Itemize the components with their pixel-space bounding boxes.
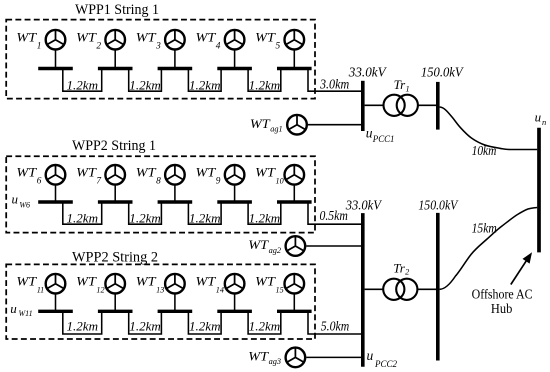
label 1.2km (3,4) bbox=[249, 319, 281, 333]
cable 1.2km WT4-WT5 bbox=[248, 69, 281, 92]
label WT4 bbox=[196, 30, 221, 51]
transformer Tr1 bbox=[384, 95, 418, 116]
svg-text:WT: WT bbox=[255, 166, 276, 180]
dashed boundary WPP string box 1 bbox=[6, 20, 315, 99]
svg-text:u: u bbox=[10, 301, 17, 316]
svg-text:1.2km: 1.2km bbox=[129, 211, 161, 225]
label WT11 bbox=[16, 274, 44, 294]
svg-text:33.0kV: 33.0kV bbox=[345, 197, 383, 212]
cable 1.2km WT13-WT14 bbox=[188, 311, 221, 334]
node label uW6 bbox=[12, 192, 31, 210]
label 33.0kV (top) bbox=[348, 65, 387, 80]
svg-text:Tr: Tr bbox=[393, 261, 406, 276]
bus bar WT3 bbox=[158, 67, 193, 70]
svg-text:1.2km: 1.2km bbox=[129, 319, 161, 333]
label 150.0kV (top) bbox=[421, 65, 464, 80]
svg-text:WT: WT bbox=[16, 166, 37, 180]
wire stem WT10 bbox=[293, 184, 295, 202]
label 1.2km (1,1) bbox=[67, 78, 99, 92]
arrow to offshore hub bbox=[511, 252, 532, 284]
wire WTag1 to bus bbox=[308, 124, 363, 126]
svg-text:1.2km: 1.2km bbox=[67, 319, 99, 333]
svg-text:1.2km: 1.2km bbox=[189, 211, 221, 225]
svg-text:WT: WT bbox=[248, 350, 269, 364]
svg-text:WPP2 String 2: WPP2 String 2 bbox=[72, 249, 158, 265]
svg-text:W6: W6 bbox=[19, 201, 30, 210]
svg-text:15: 15 bbox=[276, 285, 284, 294]
label WPP1 String 1 bbox=[75, 2, 159, 18]
wind turbine WT9 bbox=[225, 165, 245, 185]
label WT3 bbox=[136, 30, 161, 51]
sea cable 15km bbox=[440, 208, 538, 290]
wind turbine WT8 bbox=[165, 165, 185, 185]
svg-text:1: 1 bbox=[37, 41, 42, 51]
cable 1.2km WT12-WT13 bbox=[129, 311, 162, 334]
bus bar WT14 bbox=[217, 310, 252, 313]
svg-text:12: 12 bbox=[96, 285, 104, 294]
label WT13 bbox=[136, 274, 164, 294]
label 0.5km bbox=[320, 208, 348, 223]
wire stem WT13 bbox=[174, 293, 176, 311]
label WT14 bbox=[196, 274, 224, 294]
node label uPCC1 bbox=[366, 125, 395, 143]
label WT10 bbox=[255, 166, 283, 186]
bus bar WT15 bbox=[277, 310, 312, 313]
wire stem WT15 bbox=[293, 293, 295, 311]
label WT15 bbox=[255, 274, 283, 294]
svg-text:10: 10 bbox=[276, 176, 284, 185]
wire stem WT11 bbox=[55, 293, 57, 311]
svg-text:1: 1 bbox=[406, 85, 410, 94]
svg-text:WT: WT bbox=[248, 238, 269, 252]
bus bar WT9 bbox=[217, 200, 252, 203]
cable 1.2km WT14-WT15 bbox=[248, 311, 281, 334]
label WT9 bbox=[196, 166, 221, 187]
wire Tr2 to bus150kV2 bbox=[417, 288, 437, 290]
label WT5 bbox=[255, 30, 280, 51]
cable 1.2km WT2-WT3 bbox=[129, 69, 162, 92]
feeder cable 5.0km bbox=[308, 311, 363, 334]
label 1.2km (1,4) bbox=[249, 78, 281, 92]
svg-text:10km: 10km bbox=[472, 143, 497, 158]
bus 33.0kV PCC1 bbox=[361, 81, 365, 131]
wire WTag2 to bus bbox=[306, 245, 363, 247]
svg-text:1.2km: 1.2km bbox=[189, 78, 221, 92]
transformer Tr2 bbox=[383, 279, 417, 300]
svg-text:5: 5 bbox=[276, 41, 281, 51]
svg-text:WT: WT bbox=[136, 274, 157, 288]
svg-text:WT: WT bbox=[76, 166, 97, 180]
svg-text:WT: WT bbox=[196, 274, 217, 288]
bus 150.0kV lower bbox=[436, 213, 440, 361]
svg-text:ag3: ag3 bbox=[269, 357, 281, 366]
svg-text:2: 2 bbox=[405, 267, 409, 276]
wind turbine WT6 bbox=[46, 165, 66, 185]
svg-text:WT: WT bbox=[250, 117, 271, 131]
wire bus33kV to Tr1 bbox=[365, 104, 384, 106]
bus 33.0kV PCC2 bbox=[361, 213, 365, 367]
label 1.2km (3,2) bbox=[129, 319, 161, 333]
label Tr1 bbox=[394, 77, 410, 94]
wire stem WT14 bbox=[234, 293, 236, 311]
label Offshore AC Hub bbox=[472, 287, 533, 317]
cable 1.2km WT11-WT12 bbox=[63, 311, 102, 334]
svg-text:7: 7 bbox=[96, 176, 101, 186]
svg-text:11: 11 bbox=[37, 285, 45, 294]
bus 150.0kV upper bbox=[436, 82, 440, 130]
wind turbine WT13 bbox=[165, 274, 185, 294]
svg-text:PCC1: PCC1 bbox=[372, 134, 395, 144]
wind turbine WT5 bbox=[285, 30, 305, 50]
svg-text:WT: WT bbox=[136, 30, 157, 44]
wire stem WT12 bbox=[114, 293, 116, 311]
wire WTag3 to bus bbox=[306, 356, 363, 358]
sea cable 10km bbox=[440, 107, 538, 150]
label 1.2km (2,1) bbox=[67, 211, 99, 225]
wind turbine WTag3 bbox=[286, 348, 306, 368]
svg-text:WT: WT bbox=[16, 274, 37, 288]
wind turbine WT2 bbox=[105, 30, 125, 50]
label 1.2km (2,4) bbox=[249, 211, 281, 225]
svg-text:6: 6 bbox=[37, 176, 42, 186]
cable 1.2km WT8-WT9 bbox=[188, 202, 221, 224]
label 1.2km (3,1) bbox=[67, 319, 99, 333]
wire stem WT2 bbox=[114, 49, 116, 68]
wire stem WT6 bbox=[55, 184, 57, 202]
feeder cable 0.5km bbox=[308, 202, 363, 224]
label 1.2km (1,3) bbox=[189, 78, 221, 92]
dashed boundary WPP string box 3 bbox=[6, 264, 315, 339]
svg-text:4: 4 bbox=[216, 41, 221, 51]
svg-text:u: u bbox=[12, 192, 19, 207]
wind turbine WT3 bbox=[165, 30, 185, 50]
cable 1.2km WT7-WT8 bbox=[129, 202, 162, 224]
dashed boundary WPP string box 2 bbox=[6, 156, 315, 232]
svg-text:1.2km: 1.2km bbox=[67, 78, 99, 92]
svg-text:1.2km: 1.2km bbox=[189, 319, 221, 333]
node label uW11 bbox=[10, 301, 32, 318]
svg-text:1.2km: 1.2km bbox=[249, 319, 281, 333]
svg-text:Tr: Tr bbox=[394, 77, 407, 92]
svg-text:n: n bbox=[542, 117, 546, 127]
svg-text:WPP2 String 1: WPP2 String 1 bbox=[72, 138, 156, 154]
feeder cable 3.0km bbox=[308, 69, 363, 92]
wire stem WT7 bbox=[114, 184, 116, 202]
svg-text:1.2km: 1.2km bbox=[129, 78, 161, 92]
wind turbine WT4 bbox=[225, 30, 245, 50]
label WT8 bbox=[136, 166, 161, 187]
svg-text:ag1: ag1 bbox=[270, 125, 282, 134]
svg-text:u: u bbox=[535, 110, 542, 125]
label 3.0km bbox=[319, 76, 349, 91]
svg-text:u: u bbox=[367, 348, 374, 363]
svg-text:W11: W11 bbox=[19, 309, 33, 318]
svg-text:WT: WT bbox=[255, 274, 276, 288]
svg-text:150.0kV: 150.0kV bbox=[418, 197, 459, 212]
label 1.2km (3,3) bbox=[189, 319, 221, 333]
svg-text:WT: WT bbox=[255, 30, 276, 44]
cable 1.2km WT9-WT10 bbox=[248, 202, 281, 224]
label Tr2 bbox=[393, 261, 409, 277]
label 15km bbox=[472, 220, 497, 235]
svg-text:9: 9 bbox=[216, 176, 221, 186]
wire bus33kV2 to Tr2 bbox=[365, 288, 384, 290]
svg-text:0.5km: 0.5km bbox=[320, 208, 348, 223]
bus bar WT6 bbox=[38, 200, 73, 203]
bus bar WT13 bbox=[158, 310, 193, 313]
svg-text:1.2km: 1.2km bbox=[67, 211, 99, 225]
wind turbine WT1 bbox=[46, 30, 66, 50]
wind turbine WT7 bbox=[105, 165, 125, 185]
wire stem WT4 bbox=[234, 49, 236, 68]
svg-text:WT: WT bbox=[76, 30, 97, 44]
label WT12 bbox=[76, 274, 104, 294]
label 1.2km (1,2) bbox=[129, 78, 161, 92]
svg-text:WT: WT bbox=[196, 166, 217, 180]
wire Tr1 to bus150kV bbox=[418, 104, 438, 106]
label WTag2 bbox=[248, 238, 281, 255]
bus bar WT8 bbox=[158, 200, 193, 203]
label WTag1 bbox=[250, 117, 283, 134]
svg-text:13: 13 bbox=[156, 285, 164, 294]
wind turbine WT12 bbox=[105, 274, 125, 294]
wire stem WT1 bbox=[55, 49, 57, 68]
bus bar WT5 bbox=[277, 67, 312, 70]
bus bar WT10 bbox=[277, 200, 312, 203]
svg-text:150.0kV: 150.0kV bbox=[421, 65, 464, 80]
label 5.0km bbox=[321, 319, 349, 334]
svg-text:WPP1 String 1: WPP1 String 1 bbox=[75, 2, 159, 18]
label 1.2km (2,2) bbox=[129, 211, 161, 225]
svg-text:Hub: Hub bbox=[491, 301, 512, 316]
svg-text:WT: WT bbox=[76, 274, 97, 288]
label WPP2 String 2 bbox=[72, 249, 158, 265]
svg-text:8: 8 bbox=[156, 176, 161, 186]
bus offshore hub un bbox=[537, 128, 541, 253]
wind turbine WTag1 bbox=[287, 115, 307, 135]
bus bar WT2 bbox=[98, 67, 133, 70]
label WT2 bbox=[76, 30, 101, 51]
svg-text:WT: WT bbox=[136, 166, 157, 180]
svg-text:15km: 15km bbox=[472, 220, 497, 235]
wire stem WT5 bbox=[293, 49, 295, 68]
node label uPCC2 bbox=[367, 348, 398, 369]
cable 1.2km WT6-WT7 bbox=[63, 202, 102, 224]
wind turbine WT15 bbox=[285, 274, 305, 294]
svg-text:33.0kV: 33.0kV bbox=[348, 65, 387, 80]
label 33.0kV (bottom) bbox=[345, 197, 383, 212]
wire stem WT9 bbox=[234, 184, 236, 202]
label WTag3 bbox=[248, 350, 281, 367]
svg-text:3.0km: 3.0km bbox=[319, 76, 349, 91]
bus bar WT11 bbox=[38, 310, 73, 313]
bus bar WT12 bbox=[98, 310, 133, 313]
svg-text:Offshore AC: Offshore AC bbox=[472, 287, 533, 302]
svg-text:1.2km: 1.2km bbox=[249, 78, 281, 92]
svg-text:3: 3 bbox=[155, 41, 161, 51]
svg-text:WT: WT bbox=[196, 30, 217, 44]
svg-text:ag2: ag2 bbox=[269, 246, 281, 255]
wind turbine WT11 bbox=[46, 274, 66, 294]
label 150.0kV (bottom) bbox=[418, 197, 459, 212]
wire stem WT3 bbox=[174, 49, 176, 68]
svg-text:WT: WT bbox=[16, 30, 37, 44]
cable 1.2km WT1-WT2 bbox=[63, 69, 102, 92]
svg-text:1.2km: 1.2km bbox=[249, 211, 281, 225]
svg-text:2: 2 bbox=[96, 41, 101, 51]
wind turbine WT10 bbox=[285, 165, 305, 185]
cable 1.2km WT3-WT4 bbox=[188, 69, 221, 92]
label 1.2km (2,3) bbox=[189, 211, 221, 225]
svg-text:14: 14 bbox=[216, 285, 224, 294]
wind turbine WT14 bbox=[225, 274, 245, 294]
svg-text:u: u bbox=[366, 125, 373, 140]
label 10km bbox=[472, 143, 497, 158]
bus bar WT4 bbox=[217, 67, 252, 70]
label WT6 bbox=[16, 166, 41, 187]
svg-text:PCC2: PCC2 bbox=[374, 359, 398, 369]
bus bar WT1 bbox=[38, 67, 73, 70]
label WPP2 String 1 bbox=[72, 138, 156, 154]
svg-text:5.0km: 5.0km bbox=[321, 319, 349, 334]
label WT1 bbox=[16, 30, 41, 51]
wire stem WT8 bbox=[174, 184, 176, 202]
label WT7 bbox=[76, 166, 101, 187]
bus bar WT7 bbox=[98, 200, 133, 203]
wind turbine WTag2 bbox=[286, 236, 306, 256]
node label un bbox=[535, 110, 547, 127]
